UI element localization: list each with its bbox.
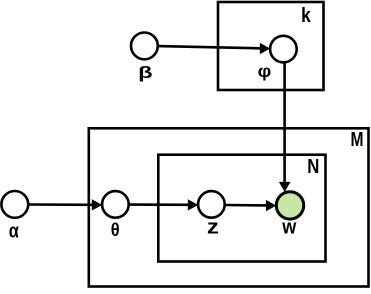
wire phi->w [283,62,286,183]
node beta [131,33,158,60]
svg-text:θ: θ [111,220,120,240]
label M [351,129,364,151]
arrowhead at w [266,200,276,211]
label w [281,217,296,239]
plate M [89,128,369,286]
svg-text:α: α [9,221,20,243]
svg-text:N: N [307,156,319,178]
label beta [138,63,153,82]
label alpha [9,221,20,243]
wire alpha->theta [28,203,92,206]
svg-text:β: β [138,63,153,82]
node w (observed, shaded) [276,192,303,219]
arrowhead at theta [92,199,102,210]
plate N [158,155,325,262]
label phi [258,61,272,81]
label k [301,5,311,27]
wire z->w [225,204,267,207]
label z [207,217,219,239]
wire beta->phi [158,46,260,48]
node z [198,191,225,218]
arrowhead at z [188,199,198,210]
svg-text:k: k [301,5,311,27]
svg-text:φ: φ [258,61,272,81]
node phi [270,36,297,63]
arrowhead at phi [260,43,270,54]
arrowhead at w [279,182,291,192]
plate k [218,2,324,90]
node theta [102,191,129,218]
label theta [111,220,120,240]
svg-text:z: z [207,217,219,239]
label N [307,156,319,178]
svg-text:w: w [281,217,296,239]
node alpha [1,191,28,218]
wire theta->z [129,203,189,206]
svg-text:M: M [351,129,364,151]
